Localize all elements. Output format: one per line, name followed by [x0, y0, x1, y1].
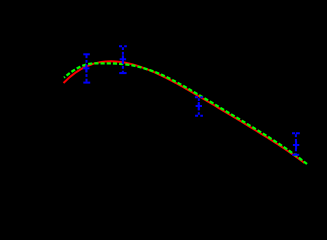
bottom cap [292, 154, 299, 156]
green dashed fit curve [64, 63, 307, 164]
top cap [292, 132, 300, 134]
plus marker [196, 102, 202, 110]
error bar point 1 [83, 54, 90, 82]
error bar point 3 [195, 97, 203, 116]
vertical dashed error line [198, 98, 200, 115]
top cap [83, 53, 90, 55]
plus marker [120, 55, 126, 63]
error bar point 2 [119, 46, 127, 73]
red solid fit curve [64, 61, 305, 163]
bottom cap [195, 115, 203, 117]
top cap [119, 45, 127, 47]
plus marker [83, 64, 89, 72]
plus marker [293, 141, 299, 149]
error bar point 4 [292, 133, 300, 155]
bottom cap [119, 72, 126, 74]
top cap [195, 96, 203, 98]
vertical dashed error line [122, 47, 124, 72]
bottom cap [83, 82, 90, 84]
vertical dashed error line [86, 55, 88, 81]
vertical dashed error line [295, 134, 297, 154]
